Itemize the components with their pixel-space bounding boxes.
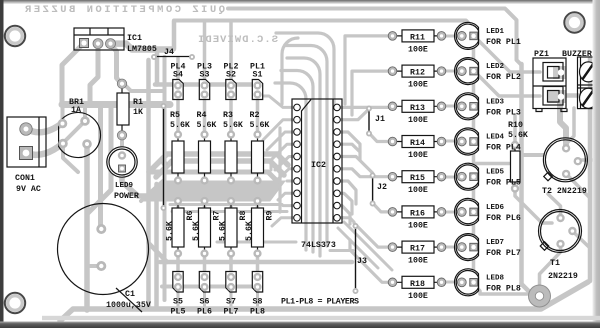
svg-text:5.6K: 5.6K xyxy=(192,221,201,241)
wire R10 top up xyxy=(513,115,517,145)
svg-text:R9: R9 xyxy=(266,211,275,221)
LED LED2 xyxy=(455,58,521,85)
LED LED8 xyxy=(455,269,521,296)
regulator IC1 xyxy=(74,28,157,54)
wire T2 bottom diag xyxy=(565,173,590,198)
connector S2 (PL2) xyxy=(224,63,239,100)
resistor R7 5.6K xyxy=(192,198,222,256)
svg-text:5.6K: 5.6K xyxy=(166,221,175,241)
wire LED9 down diag xyxy=(122,171,150,196)
svg-text:R12: R12 xyxy=(410,69,425,78)
buzzer terminal block xyxy=(578,57,597,109)
wire PZ1 right down xyxy=(567,108,574,143)
wire IC1 pad2 down xyxy=(90,46,98,103)
wire chain to V+ y163 xyxy=(474,162,520,166)
svg-text:LED7: LED7 xyxy=(486,239,504,247)
svg-text:PL8: PL8 xyxy=(250,308,265,317)
svg-text:LED9: LED9 xyxy=(115,182,134,190)
wire left thick horizontal xyxy=(62,101,170,108)
svg-text:5.6K: 5.6K xyxy=(197,121,217,130)
terminal block PZ1 xyxy=(553,66,566,79)
wire riser to top bus2 xyxy=(172,21,177,49)
svg-text:S4: S4 xyxy=(173,71,183,80)
right column rows xyxy=(388,22,521,300)
wire J1 bottom to R14 xyxy=(369,133,392,142)
wire IC2 lower jogs xyxy=(337,181,356,204)
right side PZ1 buzzer T1 T2 R10 xyxy=(508,50,597,281)
wire IC1 pad3 down to R1 xyxy=(111,45,122,83)
resistor R1 xyxy=(117,79,143,140)
wire nested corner branch b0 xyxy=(276,33,334,104)
svg-text:J1: J1 xyxy=(375,115,385,124)
svg-text:POWER: POWER xyxy=(114,192,139,201)
connector S4 (PL4) xyxy=(171,63,186,100)
wire R12 riser xyxy=(352,71,392,115)
wire nested branch b3 xyxy=(281,71,313,253)
wire top bus 2 xyxy=(174,21,474,37)
wire IC1 pad1 down-left to BR1 xyxy=(62,45,82,102)
wire BR1 bottom left stub xyxy=(63,144,78,172)
wire S bottoms to R tops xyxy=(178,95,258,134)
svg-text:T1: T1 xyxy=(550,259,560,268)
resistor R8 5.6K xyxy=(219,198,249,256)
LED LED5 xyxy=(455,163,521,190)
IC U2 74LS373 (IC2) xyxy=(292,99,342,250)
mirrored copper text xyxy=(24,4,225,16)
svg-text:R15: R15 xyxy=(410,174,425,183)
connector S1 (PL1) xyxy=(250,63,265,100)
svg-text:PL6: PL6 xyxy=(197,308,212,317)
svg-text:S2: S2 xyxy=(226,71,236,80)
wire R1 top right link xyxy=(126,86,164,91)
svg-text:PL1-PL8 = PLAYERS: PL1-PL8 = PLAYERS xyxy=(281,298,359,307)
svg-text:100E: 100E xyxy=(408,292,428,301)
wire IC2 to R15 xyxy=(337,169,392,177)
wire vertical x280 left of IC2 xyxy=(278,128,281,212)
svg-text:100E: 100E xyxy=(408,151,428,160)
wire buzzer link xyxy=(562,93,584,98)
svg-text:LM7805: LM7805 xyxy=(127,45,157,54)
svg-text:S.C.DWIVEDI: S.C.DWIVEDI xyxy=(198,34,278,46)
wire R6-R9 tops from band xyxy=(178,201,258,208)
svg-text:LED6: LED6 xyxy=(486,204,505,212)
wire IC2 pad4 jog xyxy=(337,144,360,160)
connector S7 (PL7) xyxy=(224,272,239,317)
svg-text:FOR PL1: FOR PL1 xyxy=(486,38,521,47)
resistor R14 100E xyxy=(388,136,446,161)
svg-text:FOR PL2: FOR PL2 xyxy=(486,73,521,82)
wire T2 right pad h xyxy=(578,158,592,162)
svg-text:5.6K: 5.6K xyxy=(170,121,190,130)
LED LED6 xyxy=(455,198,521,225)
wire vertical x156 lower xyxy=(154,184,159,308)
wire R1 bottom to LED9 xyxy=(120,135,124,152)
connector S3 (PL3) xyxy=(197,63,212,100)
svg-text:J4: J4 xyxy=(164,48,174,57)
resistor R13 100E xyxy=(388,100,446,125)
svg-text:2N2219: 2N2219 xyxy=(548,272,578,281)
svg-text:100E: 100E xyxy=(408,186,428,195)
wire bottom ground bus xyxy=(60,282,588,321)
svg-text:R3: R3 xyxy=(223,111,233,120)
wire IC2 pad1 to R13 xyxy=(337,106,392,107)
mounting hole top-left xyxy=(5,26,25,46)
svg-text:R4: R4 xyxy=(197,111,207,120)
wire left-of-IC2 elbows xyxy=(262,96,297,107)
wire PZ1 pad2 down xyxy=(560,100,566,147)
wire nested branch b4 xyxy=(275,83,306,250)
svg-text:FOR PL5: FOR PL5 xyxy=(486,179,521,188)
wire BR1 internal diag xyxy=(63,121,85,143)
resistor R2 5.6K xyxy=(250,111,270,183)
svg-text:R14: R14 xyxy=(410,139,425,148)
svg-text:S3: S3 xyxy=(200,71,210,80)
resistor R12 100E xyxy=(388,65,446,90)
wire IC2 to J2 top xyxy=(337,157,373,174)
svg-text:LED2: LED2 xyxy=(486,63,505,71)
svg-text:74LS373: 74LS373 xyxy=(301,241,336,250)
svg-text:FOR PL4: FOR PL4 xyxy=(486,144,521,153)
wire LED cathode chain xyxy=(474,36,528,294)
wire right edge vertical xyxy=(588,58,593,281)
wire CON1 pad2 to BR1 xyxy=(25,144,62,155)
svg-text:1A: 1A xyxy=(71,106,81,115)
wire bundle to R17 xyxy=(354,223,392,247)
svg-text:R10: R10 xyxy=(508,121,523,130)
wire col risers bus2 to S tops xyxy=(178,21,231,80)
wire IC2 pad3 jog xyxy=(337,132,360,152)
wire pad10R stub xyxy=(341,218,354,222)
wire diag into lower bus xyxy=(149,243,168,262)
wire nested branch b2 xyxy=(287,58,320,256)
svg-text:T2 2N2219: T2 2N2219 xyxy=(542,187,587,196)
wire BR1 top pads up xyxy=(63,105,86,122)
svg-text:IC1: IC1 xyxy=(127,34,142,43)
resistor R11 100E xyxy=(388,30,446,55)
svg-text:PL7: PL7 xyxy=(224,308,239,317)
svg-text:FOR PL6: FOR PL6 xyxy=(486,214,521,223)
svg-text:PZ1: PZ1 xyxy=(534,50,549,59)
wire R6-R9 bottoms to S5-S8 tops xyxy=(178,253,258,277)
svg-text:R5: R5 xyxy=(170,111,180,120)
jumper J1 xyxy=(369,109,385,134)
svg-text:100E: 100E xyxy=(408,221,428,230)
wire y250 to J3 xyxy=(330,249,353,252)
resistor R18 100E xyxy=(388,276,446,301)
svg-text:100E: 100E xyxy=(408,81,428,90)
pad via on x164 xyxy=(162,161,166,165)
resistor R15 100E xyxy=(388,171,446,196)
svg-text:S5: S5 xyxy=(173,298,183,307)
wire T2 left stub xyxy=(521,153,543,157)
bridge BR1 xyxy=(59,98,101,157)
svg-text:CON1: CON1 xyxy=(15,174,35,183)
LED9 power xyxy=(107,147,139,201)
svg-text:C1: C1 xyxy=(125,290,135,299)
resistor R9 5.6K xyxy=(245,198,275,256)
wire mid trace above band xyxy=(150,172,277,181)
LED LED7 xyxy=(455,234,521,261)
columns group: S1-S4 / R2-R5 / R6-R9 / S5-S8 xyxy=(166,63,275,317)
resistor R3 5.6K xyxy=(223,111,243,183)
wire mid ground band xyxy=(141,181,285,201)
wire S5-8 bottom pads bus xyxy=(162,285,258,289)
svg-text:J2: J2 xyxy=(377,183,387,192)
jumper J3 xyxy=(356,226,367,291)
svg-text:9V AC: 9V AC xyxy=(16,185,41,194)
connector CON1 xyxy=(7,117,46,194)
mounting hole bottom-left xyxy=(5,293,25,313)
wire vertical x111 jog xyxy=(88,107,111,213)
transistor T1 xyxy=(539,210,582,253)
wire IC1 out horizontal xyxy=(112,44,172,50)
wire T1 top up xyxy=(548,194,561,218)
svg-text:LED3: LED3 xyxy=(486,98,505,106)
svg-text:R6: R6 xyxy=(186,211,195,221)
resistor R4 5.6K xyxy=(197,111,217,183)
wire H1 behind R5-R2 xyxy=(149,154,288,172)
transistor T2 xyxy=(543,138,587,182)
svg-text:FOR PL3: FOR PL3 xyxy=(486,108,521,117)
wire bundle to R18 xyxy=(350,240,392,282)
svg-text:BUZZER: BUZZER xyxy=(562,50,592,59)
wire horizontal y242 xyxy=(217,241,296,244)
svg-text:100E: 100E xyxy=(408,45,428,54)
wire riser to S bus xyxy=(155,52,160,85)
svg-text:5.6K: 5.6K xyxy=(250,121,270,130)
svg-text:R11: R11 xyxy=(410,33,425,42)
LED LED3 xyxy=(455,93,521,120)
wire vertical x148 xyxy=(146,60,151,308)
svg-text:LED1: LED1 xyxy=(486,28,505,36)
wire lower bus xyxy=(160,260,352,265)
wire LED2 to PZ1 pad2 diag xyxy=(477,74,540,96)
svg-text:R13: R13 xyxy=(410,104,425,113)
wire S5-8 bottoms down xyxy=(178,288,258,307)
svg-text:5.6K: 5.6K xyxy=(223,121,243,130)
mounting hole top-right xyxy=(564,12,584,32)
resistor R6 5.6K xyxy=(166,198,196,256)
jumper J2 xyxy=(373,176,387,204)
svg-text:R17: R17 xyxy=(410,245,425,254)
wire vertical x164.5 xyxy=(163,57,167,300)
svg-text:5.6K: 5.6K xyxy=(508,131,528,140)
svg-text:FOR PL8: FOR PL8 xyxy=(486,284,521,293)
wire T1 bottom to via xyxy=(540,244,561,284)
wire C1 minus stub xyxy=(88,264,101,268)
resistor R5 5.6K xyxy=(170,111,190,183)
LED LED4 xyxy=(455,128,521,155)
svg-text:S1: S1 xyxy=(253,71,263,80)
wire IC2 to J1 top xyxy=(337,109,369,120)
border frame xyxy=(0,0,600,4)
wire R11 riser xyxy=(345,36,392,104)
wire band left taper xyxy=(141,181,163,201)
svg-text:1000u,35V: 1000u,35V xyxy=(106,301,151,310)
jumper end pads xyxy=(152,55,375,293)
resistor R16 100E xyxy=(388,206,446,231)
svg-text:LED8: LED8 xyxy=(486,274,505,282)
wire nested branch b1 xyxy=(285,46,327,247)
svg-text:1K: 1K xyxy=(133,108,143,117)
wire top bus 1 xyxy=(228,9,522,71)
svg-text:R7: R7 xyxy=(213,211,222,221)
svg-text:LED5: LED5 xyxy=(486,169,505,177)
svg-text:R2: R2 xyxy=(250,111,260,120)
svg-text:R8: R8 xyxy=(239,211,248,221)
jumper J4 xyxy=(154,48,192,208)
svg-text:S7: S7 xyxy=(226,298,236,307)
svg-text:5.6K: 5.6K xyxy=(245,221,254,241)
wire R2-R5 bottoms into band xyxy=(178,180,258,188)
wire IC2 right extra stubs xyxy=(337,216,344,219)
wire R right pads to LED left pads xyxy=(442,36,458,282)
capacitor C1 xyxy=(58,204,151,313)
connector S5 (PL5) xyxy=(171,272,186,317)
wire corner group a xyxy=(282,38,298,104)
resistor R17 100E xyxy=(388,241,446,266)
svg-text:R16: R16 xyxy=(410,209,425,218)
wire CON1 pad1 to BR1 xyxy=(25,124,61,132)
svg-text:100E: 100E xyxy=(408,257,428,266)
svg-text:S6: S6 xyxy=(200,298,210,307)
svg-text:5.6K: 5.6K xyxy=(219,221,228,241)
svg-text:PL5: PL5 xyxy=(171,308,186,317)
svg-text:100E: 100E xyxy=(408,116,428,125)
wire bundle diag fillers xyxy=(338,222,392,270)
wire BR1 bottom right down through C1 xyxy=(84,144,90,310)
svg-text:QUIZ COMPETITION BUZZER: QUIZ COMPETITION BUZZER xyxy=(24,4,225,16)
connector S8 (PL8) xyxy=(250,272,265,317)
wire horizontals behind R6-R9 xyxy=(170,205,287,212)
svg-text:J3: J3 xyxy=(357,257,367,266)
wire vertical to C1 plus xyxy=(98,107,104,229)
wire R10 bottom to T1 xyxy=(515,189,552,224)
wire J2 bottom to R16 xyxy=(373,203,392,212)
svg-text:R18: R18 xyxy=(410,280,425,289)
svg-text:FOR PL7: FOR PL7 xyxy=(486,249,521,258)
svg-text:R1: R1 xyxy=(133,98,143,107)
wire LED1 to PZ1 pad1 diag xyxy=(477,39,540,72)
wire S top pads bus xyxy=(155,82,258,87)
svg-text:S8: S8 xyxy=(253,298,263,307)
IC2 pin pads xyxy=(294,104,301,111)
LED LED1 xyxy=(455,22,521,49)
svg-text:IC2: IC2 xyxy=(311,161,326,170)
svg-text:LED4: LED4 xyxy=(486,134,505,142)
wire V+ vertical right xyxy=(522,64,530,292)
wire T1 right pad diag xyxy=(572,231,590,248)
pad big via bottom-right xyxy=(529,285,551,307)
wire H2 behind R5-R2 xyxy=(156,161,284,177)
connector S6 (PL6) xyxy=(197,272,212,317)
